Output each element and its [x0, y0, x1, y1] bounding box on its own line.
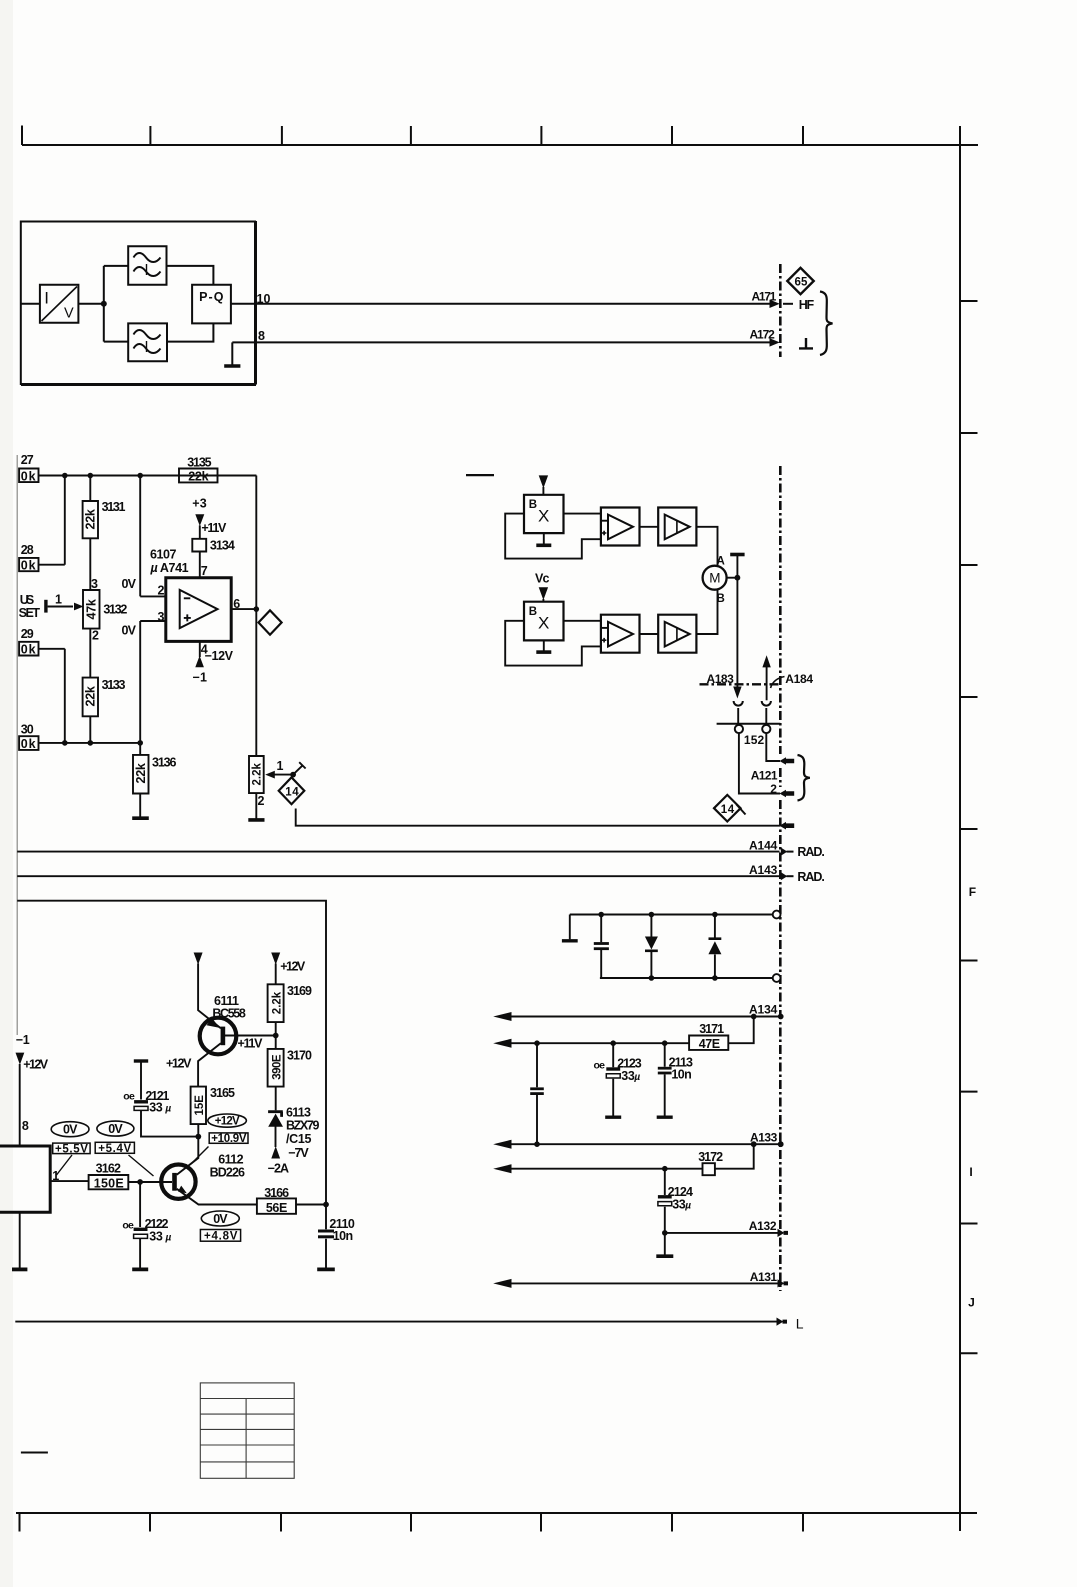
amp2 outer triangle [665, 515, 690, 540]
svg-text:+10.9V: +10.9V [211, 1133, 247, 1145]
amp1 plus mark [602, 531, 607, 536]
svg-text:152: 152 [744, 733, 765, 747]
amplifier box U1b [658, 508, 696, 546]
connector socket cup left [734, 701, 743, 706]
adjuster diagonal [293, 762, 306, 774]
brace A121 group [798, 755, 810, 801]
capacitor C (unlabeled) mid [536, 1043, 538, 1144]
amp3 input stub [601, 627, 608, 629]
svg-text:33µ: 33µ [672, 1197, 691, 1211]
arrow A132 right [778, 1229, 789, 1237]
op-amp U6107 box [166, 578, 231, 642]
svg-text:−1: −1 [193, 671, 207, 685]
svg-text:−2A: −2A [268, 1161, 289, 1175]
svg-text:BC558: BC558 [212, 1007, 245, 1021]
block outline [21, 222, 255, 385]
svg-text:2: 2 [258, 794, 265, 808]
arrow + stub RAD 2 [781, 872, 788, 880]
svg-text:+3: +3 [192, 497, 206, 511]
svg-text:oe: oe [123, 1090, 135, 1102]
junction dots top rail [62, 473, 68, 479]
svg-text:3: 3 [91, 577, 98, 591]
svg-text:BZX79: BZX79 [286, 1119, 319, 1133]
capacitor C2121 plates [134, 1100, 148, 1103]
terminal bar top of bus [730, 553, 744, 557]
ground bar 2124 [656, 1254, 673, 1258]
wire 152 right pin to A121 pin1 [766, 733, 780, 761]
resistor box 30 [19, 736, 38, 750]
diamond 65 [787, 268, 813, 294]
potentiometer R3132 47k [83, 590, 100, 629]
wire pin3 to bottom rail [140, 621, 166, 743]
I/V diagonal [42, 287, 78, 322]
svg-text:+12V: +12V [280, 960, 306, 974]
right border ticks [960, 301, 978, 1353]
capacitor C2124 33u electrolytic [664, 1169, 666, 1233]
wire amp3 to amp4 [640, 633, 659, 635]
leader +10.9V [191, 1147, 209, 1165]
Q6112 base bar [172, 1173, 177, 1191]
svg-text:I: I [44, 289, 48, 308]
arrowhead A134 left [493, 1012, 511, 1021]
wire bar to 2121 [140, 1061, 142, 1100]
capacitor C2123 33u electrolytic [612, 1043, 614, 1115]
svg-text:10n: 10n [333, 1229, 353, 1243]
amp3 plus mark [602, 638, 607, 643]
svg-text:Vc: Vc [535, 571, 549, 585]
amp4 outer triangle [665, 622, 690, 647]
wire 3135 to feedback vertical [218, 476, 257, 610]
wire block input [21, 303, 40, 305]
stub and label HF [783, 303, 793, 305]
svg-text:+11V: +11V [238, 1036, 264, 1050]
svg-text:30: 30 [21, 723, 34, 737]
svg-text:33 µ: 33 µ [149, 1101, 171, 1115]
resistor R3136 22k [133, 755, 149, 794]
ground bar left [562, 939, 578, 942]
Q6111 emitter arrow (PNP) [207, 1018, 220, 1028]
svg-text:B: B [529, 499, 537, 511]
wire top rail to pin2 [140, 476, 166, 597]
svg-text:+5.4V: +5.4V [98, 1143, 131, 1155]
wire 3162 to base [128, 1181, 172, 1183]
wire from 30 [39, 742, 141, 744]
cap 2121 terminal bar [134, 1059, 148, 1062]
svg-text:µ A741: µ A741 [150, 561, 189, 575]
connector 152 line [717, 723, 781, 725]
emitter wire 6111 [198, 964, 221, 1029]
amp2 inner triangle [677, 521, 690, 533]
resistor R3166 56E [257, 1198, 296, 1213]
op-amp plus sign [184, 614, 191, 621]
svg-text:RAD.: RAD. [797, 845, 824, 859]
filter box 2 [128, 323, 167, 361]
ground bar pot2 [248, 818, 264, 822]
svg-text:1: 1 [52, 1169, 59, 1183]
A184 wire vertical [766, 666, 768, 700]
connector 152 pin circle left [735, 725, 743, 733]
connector circle top on boundary [773, 911, 781, 919]
svg-text:3166: 3166 [264, 1186, 289, 1200]
ground under BX1 [543, 533, 545, 544]
svg-text:6107: 6107 [150, 548, 176, 562]
wire BX2 to amp3 [564, 620, 601, 622]
wire BX1 to amp1 [564, 513, 601, 515]
capacitor C2110 [325, 1205, 327, 1268]
oval 0V mid [97, 1121, 134, 1136]
svg-text:3169: 3169 [287, 984, 312, 998]
wire filter 1 output [167, 266, 214, 285]
converter I/V box [40, 285, 79, 323]
arrow A131 right [778, 1279, 789, 1287]
junction dot output [253, 606, 259, 612]
supply triangle above BX1 [539, 475, 548, 488]
base wire 6111 [225, 1035, 276, 1037]
svg-text:A144: A144 [749, 839, 778, 853]
leader +5.4V [129, 1155, 154, 1176]
capacitor C2113 10n [664, 1043, 666, 1115]
leader +5.5V [57, 1155, 73, 1175]
Q6112 emitter arrow (NPN out) [178, 1186, 187, 1194]
wire pot to 3133 [89, 629, 91, 678]
amplifier box U2b [658, 615, 696, 653]
wire rail to 3136 [139, 743, 141, 755]
svg-text:3165: 3165 [210, 1086, 235, 1100]
supply triangle below Vc [539, 587, 548, 600]
svg-text:X: X [538, 614, 549, 633]
svg-text:−12V: −12V [205, 649, 234, 663]
svg-text:0k: 0k [21, 643, 36, 657]
svg-text:47E: 47E [699, 1037, 720, 1051]
dash-dot boundary main vertical [779, 466, 782, 1291]
pin arrow A121 pin2 [780, 790, 795, 798]
wire A134 [510, 1016, 783, 1018]
bus wire vertical A183 [736, 555, 738, 689]
ground bar 2113 [657, 1115, 673, 1118]
svg-text:10n: 10n [671, 1068, 691, 1082]
resistor R3171 47E [689, 1036, 728, 1050]
amp1 input stub [601, 520, 608, 522]
svg-text:A171: A171 [752, 289, 777, 303]
diamond 14 left [279, 777, 305, 804]
supply wire -1 +12V [19, 1064, 21, 1146]
svg-text:28: 28 [21, 543, 34, 557]
svg-text:29: 29 [21, 627, 34, 641]
wire diamond to A121 line [296, 809, 780, 826]
resistor R3162 150E [89, 1175, 129, 1189]
diode D2 cathode up [714, 915, 716, 979]
svg-text:+12V: +12V [215, 1116, 240, 1128]
box +10.9V [209, 1133, 248, 1143]
wire amp4 to motor B [696, 590, 717, 634]
junction dots A133 [534, 1141, 540, 1147]
svg-text:X: X [538, 507, 549, 526]
diamond 14 right [714, 795, 741, 822]
svg-text:A143: A143 [749, 863, 778, 877]
svg-text:RAD.: RAD. [797, 870, 824, 884]
svg-text:8: 8 [258, 329, 265, 343]
svg-text:15E: 15E [194, 1095, 206, 1116]
box +5.5V [53, 1143, 90, 1154]
svg-text:3: 3 [158, 610, 165, 624]
junction dot 2124 [662, 1230, 668, 1236]
wire from 27 [39, 475, 257, 477]
junction dot A134 boundary [778, 1014, 784, 1020]
resistor R3135 22k feedback [179, 469, 218, 483]
svg-text:L: L [796, 1316, 804, 1332]
wire to filter 2 [104, 341, 128, 343]
supply triangle +12V (3169) [271, 953, 280, 965]
ground bar 2110 [317, 1268, 335, 1272]
wire motor to bus [727, 577, 738, 579]
svg-text:0k: 0k [21, 558, 36, 572]
wire L [15, 1321, 778, 1323]
svg-text:22k: 22k [134, 763, 148, 783]
filter 2 sine symbol [134, 330, 161, 353]
B/X block 1 [524, 495, 564, 533]
pin arrow A121 pin1 [780, 757, 795, 765]
wire from 28 [39, 476, 65, 565]
diamond marker at output [259, 610, 282, 634]
junction dot row4 [662, 1166, 668, 1172]
ground stub left [569, 915, 571, 940]
potentiometer 2.2k box [249, 756, 264, 793]
wire to filter 1 [104, 265, 128, 267]
IC box partial [0, 1146, 50, 1212]
emitter wire 6112 to 3166 [177, 1189, 257, 1205]
wire above 3131 [89, 476, 91, 502]
junction dot A134 [751, 1014, 757, 1020]
svg-text:3135: 3135 [187, 455, 211, 469]
wire pin7 [199, 552, 201, 578]
dash-dot boundary segment at A171/A172 [779, 264, 782, 357]
wiper wire pot2 [274, 774, 293, 776]
A183 arrow down [733, 687, 741, 699]
resistor R3165 15E [191, 1087, 206, 1125]
arrowhead row2 left [493, 1039, 511, 1048]
block loop wire top and right [17, 901, 326, 1205]
connector socket cup right [762, 701, 771, 706]
svg-text:V: V [64, 305, 74, 321]
svg-text:P-Q: P-Q [199, 290, 224, 304]
wire output down to pot [255, 609, 257, 756]
svg-text:−1: −1 [16, 1033, 30, 1047]
A184 leader curve [771, 677, 785, 689]
wire 3133 to bottom rail [89, 716, 91, 743]
wire 2121 to node [141, 1110, 198, 1136]
svg-text:A121: A121 [751, 768, 778, 782]
junction dots bottom rail [62, 740, 68, 746]
wire cup right to 152 [765, 708, 767, 725]
svg-text:oe: oe [594, 1060, 606, 1072]
right border line [959, 126, 961, 1531]
svg-text:56E: 56E [266, 1201, 287, 1215]
svg-text:1: 1 [55, 593, 62, 607]
wire 3134 to supply [199, 525, 201, 538]
svg-text:2: 2 [158, 584, 165, 598]
svg-text:3131: 3131 [102, 500, 126, 514]
svg-text:14: 14 [721, 804, 735, 816]
svg-text:SET: SET [19, 606, 41, 620]
svg-text:150E: 150E [94, 1177, 124, 1191]
P-Q box [192, 285, 231, 324]
junction dot base 6112 [137, 1179, 143, 1185]
wire 8 long [232, 341, 771, 343]
ground bar 2122 [132, 1268, 148, 1272]
resistor R3170 390E [268, 1049, 284, 1087]
svg-text:390E: 390E [271, 1054, 283, 1080]
ground bar IC [12, 1268, 27, 1272]
svg-text:22k: 22k [84, 509, 98, 529]
wire row4 [510, 1168, 703, 1170]
svg-text:33µ: 33µ [621, 1069, 640, 1083]
wire 3169 to 3170 [275, 1022, 277, 1049]
junction dots diode net [598, 912, 604, 918]
arrow L right [777, 1318, 788, 1326]
supply triangle +12V (6111 emitter) [194, 953, 203, 965]
wire pin1 to 3162 [50, 1180, 88, 1182]
svg-text:27: 27 [21, 453, 34, 467]
op-amp minus sign [184, 597, 191, 599]
svg-text:US: US [20, 593, 34, 607]
wire top rail [570, 914, 773, 916]
ground inside block [231, 342, 233, 364]
fold line (page cut, left) [16, 455, 18, 1035]
connector circle bottom on boundary [773, 974, 781, 982]
wiper terminal bar US SET [44, 600, 47, 613]
wire pin4 [199, 641, 201, 657]
svg-text:M: M [709, 571, 720, 586]
B/X block 2 [524, 602, 564, 641]
IC ground pin wire [19, 1212, 21, 1267]
wire pot2 to ground [255, 793, 257, 818]
svg-text:oe: oe [122, 1219, 134, 1231]
svg-text:I: I [969, 1165, 972, 1179]
top ruler line [22, 144, 978, 146]
revision table [200, 1383, 294, 1478]
svg-text:3133: 3133 [102, 678, 126, 692]
bottom ruler ticks [20, 1514, 804, 1532]
svg-text:2.2k: 2.2k [271, 991, 283, 1014]
svg-text:0V: 0V [63, 1123, 78, 1137]
svg-text:47k: 47k [85, 599, 99, 619]
svg-text:A131: A131 [750, 1270, 778, 1284]
wire A132 [665, 1232, 779, 1234]
svg-text:HF: HF [799, 298, 815, 312]
svg-text:3136: 3136 [152, 756, 176, 770]
wiper wire [48, 606, 73, 608]
resistor box 29 [19, 642, 38, 656]
wire I/V output to node [78, 303, 103, 305]
wire A133 [510, 1143, 783, 1145]
wire P-Q output pin 10 [231, 303, 256, 305]
diode D1 cathode down [650, 915, 652, 979]
wire A131 [510, 1282, 779, 1284]
top ruler ticks [22, 126, 803, 146]
bottom ruler line [16, 1512, 977, 1514]
wire filter 2 output [167, 323, 213, 341]
wiper arrowhead into 3132 [74, 603, 84, 611]
svg-text:6112: 6112 [218, 1152, 243, 1166]
svg-text:B: B [529, 606, 537, 618]
oval 0V left [51, 1122, 89, 1137]
svg-text:+11V: +11V [201, 521, 227, 535]
svg-text:0k: 0k [21, 737, 36, 751]
svg-text:22k: 22k [188, 470, 208, 484]
svg-text:A172: A172 [750, 328, 776, 342]
arrowhead row4 left [493, 1164, 511, 1173]
transistor Q6111 circle [200, 1018, 237, 1055]
resistor box 27 [19, 469, 38, 483]
svg-text:3132: 3132 [103, 603, 127, 617]
svg-text:+4.8V: +4.8V [204, 1231, 238, 1243]
stub mark top [466, 474, 494, 476]
ground symbol at A172 [799, 338, 813, 348]
brace HF group [820, 292, 833, 356]
svg-text:22k: 22k [84, 686, 98, 706]
wire 2122 to ground [139, 1238, 141, 1267]
node dot I/V output [101, 301, 107, 307]
svg-text:A132: A132 [749, 1219, 777, 1233]
ground bar 2123 [605, 1115, 621, 1118]
svg-text:3170: 3170 [287, 1049, 312, 1063]
ground under BX2 [543, 640, 545, 650]
wire 3165 to node [177, 1124, 199, 1175]
filter 1 sine symbol [134, 253, 161, 276]
wire A134 down to 3171 [728, 1017, 753, 1044]
svg-text:A184: A184 [785, 672, 813, 686]
junction dots row2 [534, 1040, 540, 1046]
short dash mark bottom left [21, 1452, 48, 1454]
wire node vertical [103, 266, 105, 342]
resistor box 28 [19, 558, 38, 571]
junction dot motor bus [735, 575, 741, 581]
arrowhead wire 10 at A171 [770, 300, 780, 308]
svg-text:/C15: /C15 [286, 1132, 311, 1146]
arrowhead A131 left [493, 1279, 511, 1288]
supply triangle -1 [16, 1053, 25, 1065]
wiper arrowhead pot2 [265, 771, 275, 779]
wire A133 down to row4 [715, 1144, 754, 1169]
wire cup left to 152 [737, 708, 739, 725]
wire to 3169 [275, 964, 277, 985]
feedback wire BX1 [505, 514, 601, 559]
dash-dot horizontal deck boundary [700, 683, 780, 685]
arrow + stub RAD 1 [781, 848, 788, 856]
junction dot base 6111 [273, 1033, 279, 1039]
oval +12V node [208, 1114, 247, 1127]
resistor R3133 22k [83, 678, 98, 717]
arrowhead A133 left [493, 1140, 511, 1149]
transistor Q6112 circle [161, 1165, 195, 1199]
svg-text:7: 7 [201, 564, 208, 578]
capacitor C2122 plates [134, 1228, 148, 1231]
diamond 14 tick [737, 805, 746, 815]
amp4 inner triangle [677, 628, 690, 640]
svg-text:0V: 0V [213, 1212, 228, 1226]
wire 2124 to ground [664, 1233, 666, 1255]
supply triangle +3 [195, 514, 204, 526]
motor M circle [703, 566, 727, 590]
wire amp2 to motor A [696, 527, 717, 566]
zener diode D6113 [268, 1112, 283, 1117]
wiper junction dot [290, 772, 296, 778]
svg-text:0k: 0k [21, 469, 36, 483]
resistor R3169 2.2k [268, 984, 284, 1022]
wire 3166 to corner [296, 1204, 326, 1206]
amplifier box U1a [601, 508, 640, 546]
svg-text:33 µ: 33 µ [149, 1229, 171, 1243]
